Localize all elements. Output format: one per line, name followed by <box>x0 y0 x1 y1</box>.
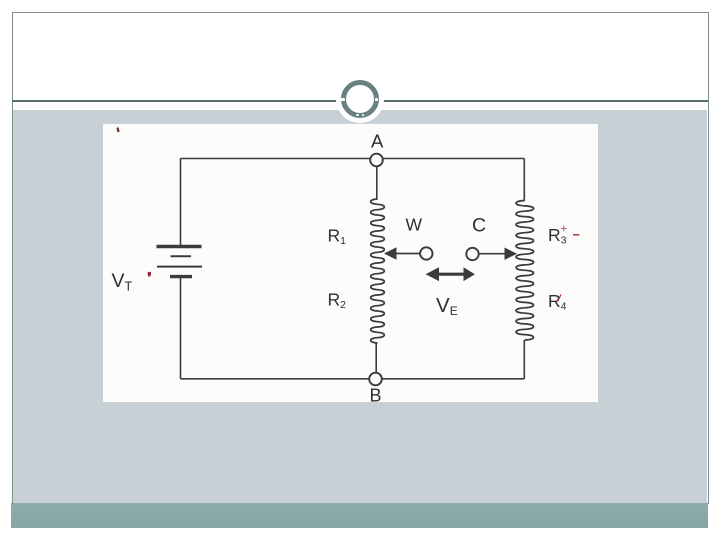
header rule <box>12 100 708 102</box>
wiper C arrow <box>479 248 517 260</box>
svg-text:R2: R2 <box>328 290 347 312</box>
svg-text:W: W <box>406 215 423 235</box>
wiper W arrow <box>384 247 420 259</box>
svg-text:+: + <box>561 224 568 236</box>
svg-text:R1: R1 <box>328 226 347 248</box>
svg-text:VT: VT <box>112 270 133 294</box>
svg-text:VE: VE <box>436 294 458 318</box>
wire top <box>181 158 525 160</box>
resistor R3/R4 coil <box>516 201 534 341</box>
ring notch right <box>375 98 378 101</box>
VE double arrow <box>426 267 475 281</box>
ring dot bottom-right <box>362 114 365 116</box>
wiper C terminal <box>466 248 478 260</box>
red tick top-left <box>118 128 119 133</box>
wire bottom <box>181 378 525 380</box>
teal footer band <box>11 503 708 528</box>
wire left lower <box>180 278 182 379</box>
battery VT <box>157 247 203 277</box>
ornament ring <box>341 80 379 118</box>
ring notch left <box>341 98 345 101</box>
gray content band <box>13 110 707 503</box>
red dot near battery <box>148 272 152 277</box>
svg-text:B: B <box>370 386 382 403</box>
svg-text:R4: R4 <box>548 291 567 313</box>
wire left upper <box>180 159 182 246</box>
wire right upper <box>523 159 525 201</box>
wire node A to R1 <box>376 167 378 200</box>
wire R2 to node B <box>375 343 377 373</box>
red slash on R4 subscript <box>558 295 562 302</box>
node A <box>370 154 383 167</box>
svg-text:C: C <box>472 215 486 237</box>
ring dot bottom-left <box>356 114 359 116</box>
red annotation - near R3 <box>573 234 579 236</box>
svg-text:A: A <box>371 131 384 152</box>
wire right lower <box>523 340 525 379</box>
scanned circuit image area <box>103 124 598 402</box>
resistor R1/R2 coil <box>371 199 385 343</box>
wiper W terminal <box>420 247 432 259</box>
ring halo <box>336 75 384 123</box>
node B <box>369 373 382 386</box>
